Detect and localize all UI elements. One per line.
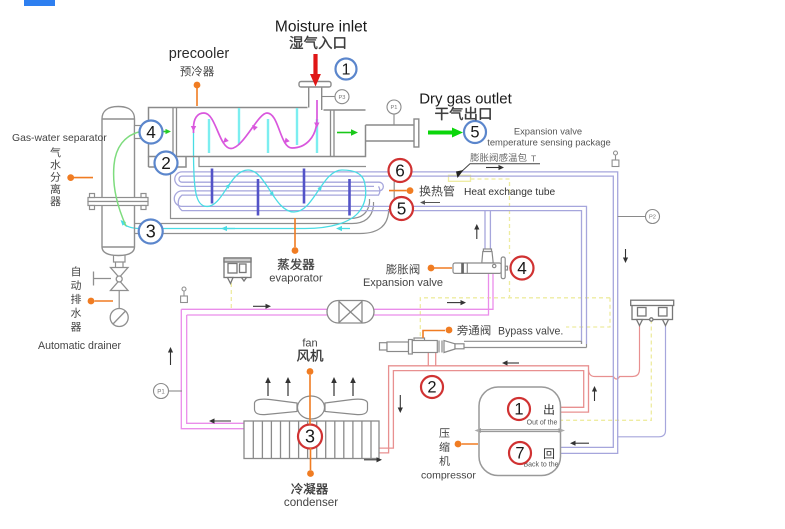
evaporator thermostat box [224, 258, 251, 284]
pressure switch box [631, 300, 674, 325]
separator outlet stub [135, 126, 146, 139]
svg-text:1: 1 [514, 401, 523, 419]
svg-text:Automatic drainer: Automatic drainer [38, 340, 121, 352]
moisture inlet pipe and flange [299, 82, 331, 111]
green flow inside separator [114, 132, 141, 227]
svg-text:P1: P1 [391, 105, 398, 111]
svg-text:condenser: condenser [284, 496, 338, 509]
label condenser [291, 483, 302, 495]
label automatic drainer [72, 266, 80, 276]
svg-text:1: 1 [342, 62, 351, 79]
red hot gas pipe (compressor-bypass-condenser) [379, 352, 589, 453]
P3 gauge [322, 96, 335, 98]
capillary sensing line (yellow dashed) [231, 179, 651, 420]
node 7 (red) compressor return [509, 442, 531, 464]
gray pipe bypass valve to riser [464, 341, 587, 347]
svg-text:Gas-water separator: Gas-water separator [12, 133, 107, 144]
compressor divider [475, 428, 482, 433]
svg-text:temperature sensing package: temperature sensing package [487, 137, 611, 148]
hot air serpentine (magenta) [194, 100, 318, 149]
svg-text:evaporator: evaporator [269, 273, 323, 285]
svg-text:3: 3 [146, 222, 156, 242]
access valve on suction pipe [612, 151, 619, 167]
condenser [244, 421, 379, 459]
pressure switch wire (red) [589, 326, 640, 380]
pressure switch wire (lavender) [618, 326, 666, 437]
node 3 (red) condenser [298, 425, 322, 449]
drain pipe and sight glass [118, 291, 120, 309]
separator flange [88, 194, 148, 210]
node 2 (red) [421, 376, 443, 398]
svg-text:4: 4 [146, 122, 156, 142]
svg-text:5: 5 [470, 124, 479, 142]
label bypass valve [457, 325, 468, 336]
heat exchanger shell [171, 157, 395, 219]
node 2 (blue) [155, 152, 178, 175]
svg-text:Out of the: Out of the [527, 420, 558, 427]
svg-text:3: 3 [305, 427, 315, 447]
svg-text:Moisture inlet: Moisture inlet [275, 19, 368, 36]
drain neck [114, 256, 126, 268]
filter drier [327, 301, 374, 324]
node 4 (blue) [140, 121, 163, 144]
precooler tubes (cyan) [209, 108, 317, 153]
expansion valve body [453, 249, 508, 279]
suction pipe from heat exchanger to compressor [403, 172, 618, 454]
liquid pipe from heat exchanger to expansion valve and bypass [390, 206, 587, 344]
node 1 (blue) moisture inlet [336, 59, 357, 80]
fan [255, 396, 368, 419]
compressor shell [479, 387, 561, 476]
dry gas outlet duct [366, 119, 419, 147]
node 4 (red) expansion valve [511, 257, 534, 280]
serpentine arrow [316, 116, 318, 123]
P1 gauge top [393, 113, 395, 125]
P2 gauge [618, 216, 646, 218]
arrows on wave [222, 187, 227, 193]
svg-text:T: T [531, 154, 536, 164]
svg-text:P1: P1 [157, 388, 165, 395]
svg-text:Heat exchange tube: Heat exchange tube [464, 187, 556, 198]
svg-text:P3: P3 [339, 95, 346, 101]
P1 gauge (left) [168, 390, 182, 392]
cold air flow line [123, 132, 366, 229]
pink refrigerant liquid pipe (condenser-filter-expansion valve) [181, 274, 493, 429]
gas-water separator vessel [102, 107, 135, 256]
svg-text:Dry gas outlet: Dry gas outlet [419, 91, 512, 108]
svg-text:2: 2 [161, 153, 171, 173]
svg-text:Bypass valve.: Bypass valve. [498, 326, 563, 338]
air return duct to separator [135, 202, 389, 234]
label evaporator [278, 259, 289, 271]
svg-text:6: 6 [395, 161, 405, 181]
green flow arrows [337, 132, 351, 134]
node 3 (blue) [139, 220, 163, 244]
compressor texts [544, 404, 553, 415]
svg-text:fan: fan [302, 338, 317, 350]
red inlet arrow [313, 54, 317, 75]
label expansion valve [386, 264, 397, 275]
label compressor [439, 428, 449, 438]
expansion valve sensing bulb [449, 175, 471, 181]
serpentine arrow [193, 122, 195, 126]
fan air arrows [267, 383, 269, 396]
tube sheets [173, 108, 334, 157]
svg-text:Expansion valve: Expansion valve [514, 126, 582, 137]
node 5 (blue) dry gas outlet [464, 121, 486, 143]
node 5 (red) [390, 197, 413, 220]
drain valve [111, 268, 129, 291]
svg-text:7: 7 [515, 445, 524, 463]
svg-text:compressor: compressor [421, 470, 476, 482]
valve handle [94, 278, 112, 280]
node 6 (red) [389, 159, 412, 182]
blue header tab [24, 0, 55, 6]
svg-text:Back to the: Back to the [523, 462, 558, 469]
svg-text:4: 4 [517, 258, 527, 278]
bypass valve [380, 338, 465, 354]
misc flow arrows [486, 167, 499, 169]
sensing bulb leader [461, 164, 541, 173]
arrow into separator [124, 224, 127, 227]
precooler shell [149, 108, 366, 168]
node 1 (red) compressor out [508, 398, 530, 420]
label heat exchange tube [419, 185, 430, 196]
svg-text:5: 5 [397, 199, 407, 219]
heat exchange tube coil [174, 172, 403, 211]
svg-text:precooler: precooler [169, 46, 230, 62]
serpentine arrow [256, 129, 258, 131]
svg-text:P2: P2 [649, 215, 656, 221]
svg-text:2: 2 [427, 379, 436, 397]
access valve on liquid pipe [181, 287, 188, 303]
serpentine arrow [227, 137, 229, 139]
serpentine arrow [288, 137, 290, 140]
coil baffles [212, 169, 350, 216]
svg-text:Expansion valve: Expansion valve [363, 277, 443, 289]
flow arrows in duct [227, 228, 235, 230]
